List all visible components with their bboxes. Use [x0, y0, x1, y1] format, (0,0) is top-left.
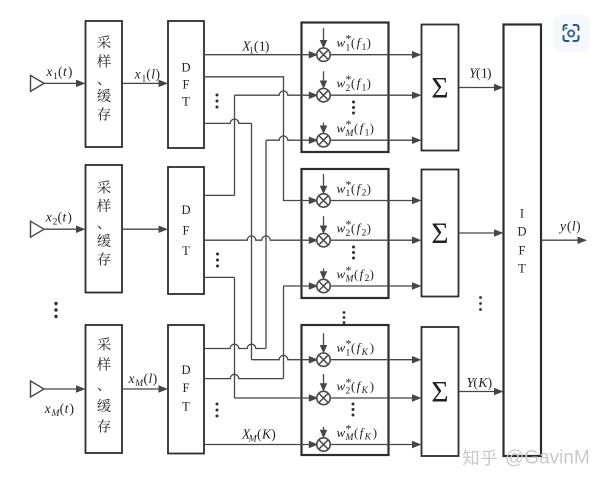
svg-text:F: F	[183, 381, 190, 395]
svg-text:): )	[265, 39, 270, 54]
svg-text:F: F	[519, 244, 526, 258]
svg-text:w: w	[337, 181, 346, 196]
svg-text:): )	[370, 122, 374, 136]
svg-text:Σ: Σ	[431, 73, 448, 105]
svg-text:): )	[68, 64, 73, 79]
svg-text:w: w	[337, 267, 346, 282]
svg-text:w: w	[337, 221, 346, 236]
svg-text:): )	[153, 371, 158, 386]
svg-text:): )	[367, 77, 371, 91]
svg-text:): )	[367, 36, 371, 50]
svg-text:T: T	[518, 262, 526, 276]
svg-text:(: (	[354, 122, 358, 136]
svg-text:(: (	[351, 36, 355, 50]
svg-text:1: 1	[346, 43, 351, 53]
svg-text:(: (	[354, 426, 358, 440]
svg-text:T: T	[182, 400, 190, 414]
svg-text:2: 2	[346, 387, 351, 397]
svg-text:M: M	[345, 129, 355, 139]
svg-text:x: x	[45, 210, 52, 225]
svg-text:D: D	[181, 363, 190, 377]
svg-text:w: w	[337, 379, 346, 394]
svg-text:T: T	[182, 95, 190, 109]
svg-text:F: F	[183, 224, 190, 238]
svg-text:K: K	[364, 433, 372, 443]
svg-text:x: x	[127, 371, 134, 386]
svg-text:): )	[156, 67, 161, 82]
svg-text:I: I	[520, 207, 524, 221]
svg-text:D: D	[181, 203, 190, 217]
svg-text:@GavinM: @GavinM	[505, 448, 590, 469]
svg-text:T: T	[182, 244, 190, 258]
svg-text:x: x	[45, 64, 52, 79]
svg-text:(: (	[354, 268, 358, 282]
svg-text:F: F	[183, 78, 190, 92]
svg-text:M: M	[345, 275, 355, 285]
svg-text:): )	[271, 427, 276, 442]
svg-text:w: w	[337, 340, 346, 355]
svg-text:2: 2	[346, 84, 351, 94]
svg-text:): )	[70, 401, 75, 416]
svg-text:(: (	[351, 380, 355, 394]
svg-text:): )	[373, 426, 377, 440]
svg-text:(: (	[351, 341, 355, 355]
svg-text:): )	[370, 268, 374, 282]
svg-text:y: y	[558, 219, 566, 234]
svg-text:(: (	[351, 182, 355, 196]
svg-text:Σ: Σ	[431, 218, 448, 250]
svg-text:w: w	[337, 121, 346, 136]
svg-text:): )	[67, 210, 72, 225]
svg-text:): )	[576, 219, 581, 234]
svg-text:): )	[487, 66, 492, 81]
svg-text:D: D	[181, 61, 190, 75]
svg-text:): )	[488, 375, 493, 390]
svg-text:2: 2	[346, 229, 351, 239]
svg-text:): )	[367, 222, 371, 236]
svg-text:): )	[370, 341, 374, 355]
svg-text:x: x	[134, 67, 141, 82]
svg-text:1: 1	[346, 348, 351, 358]
svg-text:w: w	[337, 35, 346, 50]
svg-text:K: K	[361, 348, 369, 358]
svg-text:(: (	[351, 77, 355, 91]
svg-text:): )	[367, 182, 371, 196]
svg-text:x: x	[44, 401, 51, 416]
svg-text:1: 1	[346, 189, 351, 199]
svg-text:M: M	[345, 433, 355, 443]
svg-text:Σ: Σ	[431, 377, 448, 409]
svg-text:): )	[370, 380, 374, 394]
svg-text:D: D	[517, 225, 526, 239]
svg-text:(: (	[351, 222, 355, 236]
svg-text:w: w	[337, 76, 346, 91]
svg-text:w: w	[337, 425, 346, 440]
svg-text:K: K	[361, 386, 369, 396]
